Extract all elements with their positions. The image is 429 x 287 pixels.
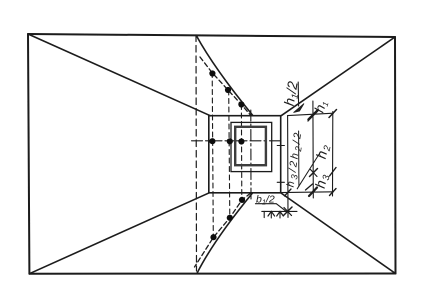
outer footing frame (28, 34, 396, 274)
node dot top 3 (238, 101, 244, 107)
plus tick on rect right edge upper (277, 145, 284, 147)
arrowhead on TR diagonal (294, 104, 305, 113)
rebar dashed vertical 2 (229, 90, 230, 218)
tick at B x D2 heavy (309, 188, 317, 197)
chevron arrow 2 on b-line (277, 211, 284, 216)
node dot bottom 2 (227, 215, 233, 221)
steep dashed pyramid line top (200, 57, 251, 116)
dimension line bottom row (281, 191, 334, 194)
b1/2 underline and leader (256, 204, 287, 212)
node dot top 2 (225, 87, 231, 93)
vertical centerline (250, 110, 252, 199)
leader line in label zone (297, 154, 319, 189)
footing step outer rectangle (209, 116, 281, 193)
rebar dashed vertical 1 (212, 73, 213, 238)
footing step middle rectangle (231, 122, 272, 171)
pyramid diagonal bottom-left (29, 193, 209, 274)
plus tick on rect right edge lower (277, 181, 284, 183)
pyramid diagonal bottom-right (281, 193, 396, 274)
b-line left drop (263, 211, 265, 217)
node dot middle 3 (238, 138, 244, 144)
dimension extension line B (312, 101, 314, 198)
node dot middle 2 (227, 138, 233, 144)
svg-text:b1/2: b1/2 (256, 194, 275, 207)
svg-text:h2: h2 (313, 142, 334, 161)
node dot middle 1 (209, 138, 215, 144)
rebar dashed vertical 3 (240, 105, 242, 201)
tick at C x D2 (330, 189, 337, 196)
h1/2 underline (297, 82, 299, 106)
pyramid diagonal top-left (28, 34, 211, 116)
dimension line b1/2 (262, 210, 297, 212)
node dot bottom 3 (239, 197, 245, 203)
steep solid section line top (196, 36, 253, 116)
dimension line h1 row (288, 113, 334, 115)
dimension extension line A (287, 116, 289, 218)
node dot bottom 1 (210, 234, 216, 240)
h3/2h2/2 underline (298, 131, 300, 186)
steep dashed pyramid line bottom (195, 193, 251, 267)
node dot top 1 (209, 70, 215, 76)
tick at B x D1 heavy (309, 111, 318, 120)
chevron arrow 1 on b-line (268, 211, 275, 216)
horizontal centerline (192, 140, 282, 142)
tick at A x D2 (285, 189, 292, 196)
small tick near C mid (330, 168, 337, 177)
steep solid section line bottom (197, 193, 253, 273)
cross tick at A x b-line (284, 207, 293, 216)
column inner rectangle (235, 127, 266, 165)
cross tick on B mid (310, 169, 318, 177)
long dashed vertical axis (195, 35, 198, 271)
tick at C x D1 (329, 110, 337, 118)
dimension extension line C (332, 112, 334, 197)
pyramid diagonal top-right (281, 37, 395, 116)
